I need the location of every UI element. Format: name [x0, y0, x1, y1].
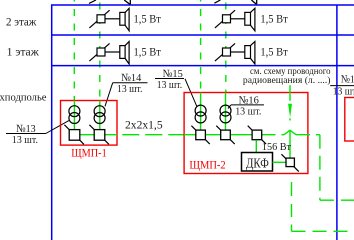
feed arrow head — [288, 104, 292, 118]
svg-text:13 шт.: 13 шт. — [235, 106, 261, 118]
feed line from radio network (green dashed with arrow) — [289, 85, 291, 158]
svg-text:ЩМП-2: ЩМП-2 — [189, 159, 226, 171]
svg-text:13 шт.: 13 шт. — [12, 134, 38, 146]
svg-text:2х2х1,5: 2х2х1,5 — [125, 117, 163, 131]
wire socket to speaker (1 этаж right) — [231, 51, 245, 53]
transformer T2 (two circles) — [94, 106, 105, 124]
label №13 13 шт. with leader — [6, 120, 69, 146]
floor line above техподполье — [51, 65, 354, 67]
wire riser 3 (green dashed vertical to ЩМП-2 transformer T3) — [200, 0, 202, 93]
transformer T1 (two circles) — [69, 106, 80, 124]
svg-text:2 этаж: 2 этаж — [6, 14, 37, 28]
radio socket X1 (2 этаж left): square with slash — [89, 10, 109, 28]
svg-text:156 Вт: 156 Вт — [262, 141, 291, 153]
svg-text:радиовещания (л. ....): радиовещания (л. ....) — [243, 75, 331, 86]
wire riser 4 (green dashed vertical to ЩМП-2 transformer T4) — [225, 0, 227, 93]
wall right (blue vertical building line) — [336, 5, 338, 240]
limiter box S3 in ЩМП-2 (square with slash) — [191, 126, 209, 144]
cut-off speaker horn fragment top-right — [251, 0, 256, 4]
svg-text:ЩМП-1: ЩМП-1 — [71, 148, 107, 160]
cut-off socket slash fragment top-right — [214, 0, 220, 3]
floor line top — [51, 4, 354, 6]
svg-text:хподполье: хподполье — [0, 92, 47, 103]
wire bus ЩМП-1 (green horizontal) — [74, 134, 117, 136]
wire exit bus right (green dashed horizontal at y=200) — [320, 199, 354, 201]
wire T4 vertical (green inside ЩМП-2) — [225, 93, 227, 130]
transformer T4 (two circles) — [220, 105, 231, 123]
cut-off speaker horn fragment top-left — [124, 0, 130, 4]
wire riser 2 (green dashed vertical to ЩМП-1 transformer T2) — [99, 0, 101, 101]
svg-text:13 шт.: 13 шт. — [117, 83, 143, 95]
wire bus ЩМП-2 (green horizontal through squares) — [184, 134, 261, 136]
svg-text:1,5 Вт: 1,5 Вт — [134, 45, 162, 59]
wire T1 vertical (green inside ЩМП-1) — [73, 101, 75, 130]
wire bottom run right (green dashed horizontal at y=231) — [292, 230, 354, 232]
limiter box S4 in ЩМП-2 (square with slash) — [216, 126, 234, 144]
wire ДКФ to S6 (green horizontal) — [273, 161, 287, 163]
label №17 13 шт. (cut at right edge) — [330, 73, 354, 97]
loudspeaker A1 (2 этаж left) 1,5 Вт — [120, 8, 129, 31]
limiter box S2 in ЩМП-1 (square with slash) — [89, 125, 109, 145]
svg-text:1,5 Вт: 1,5 Вт — [260, 12, 288, 26]
svg-text:13 шт.: 13 шт. — [157, 79, 183, 91]
wire riser 1 (green dashed vertical to ЩМП-1 transformer T1) — [73, 0, 75, 101]
wire hop over feed line — [284, 130, 296, 135]
cut-off socket slash fragment top-left — [89, 0, 96, 3]
label №16 13 шт. with leader — [228, 94, 264, 117]
svg-text:1 этаж: 1 этаж — [7, 44, 40, 58]
limiter box S6 (square with slash) — [281, 154, 298, 171]
radio socket X3 (1 этаж left): square with slash — [89, 43, 109, 61]
panel box ЩМП-1 (red) — [61, 101, 118, 146]
panel box №17 fragment (red, cut at right edge) — [345, 98, 354, 142]
limiter box S1 in ЩМП-1 (square with slash) — [64, 125, 84, 145]
svg-text:1,5 Вт: 1,5 Вт — [260, 45, 288, 59]
panel box ЩМП-2 (red) — [184, 93, 308, 174]
label №15 13 шт. with leader — [155, 68, 197, 107]
wire T2 vertical (green inside ЩМП-1) — [99, 101, 101, 130]
wire S6 output down (green dashed vertical) — [291, 182, 293, 231]
cable run 2x2x1,5 (green dashed between boxes) — [117, 134, 184, 136]
wire bus dashed to hop — [262, 134, 285, 136]
svg-text:ДКФ: ДКФ — [246, 155, 269, 170]
loudspeaker A4 (1 этаж right) 1,5 Вт — [245, 42, 255, 65]
limiter box S5 in ЩМП-2 (square with slash) — [248, 126, 266, 144]
wire socket to speaker (2 этаж left) — [105, 18, 120, 20]
wire bus dashed exit to right — [296, 134, 320, 136]
wire S5 to ДКФ (green vertical) — [255, 140, 257, 152]
label №14 13 шт. with leader — [105, 72, 148, 106]
radio socket X4 (1 этаж right): square with slash — [215, 43, 235, 61]
wire exit bus down (green dashed vertical at x=320) — [319, 135, 321, 201]
loudspeaker A3 (1 этаж left) 1,5 Вт — [120, 42, 129, 65]
wire T3 vertical (green inside ЩМП-2) — [200, 93, 202, 130]
floor line between 2 этаж and 1 этаж — [51, 34, 354, 36]
transformer T3 (two circles) — [195, 105, 206, 123]
loudspeaker A2 (2 этаж right) 1,5 Вт — [245, 8, 255, 31]
wire socket to speaker (2 этаж right) — [231, 18, 245, 20]
wall left (blue vertical building line) — [51, 5, 53, 240]
svg-text:13 шт.: 13 шт. — [333, 86, 354, 98]
svg-text:1,5 Вт: 1,5 Вт — [134, 12, 162, 26]
svg-text:№1: №1 — [341, 73, 354, 85]
filter ДКФ box — [242, 153, 273, 172]
wire socket to speaker (1 этаж left) — [105, 51, 120, 53]
radio socket X2 (2 этаж right): square with slash — [215, 10, 235, 28]
